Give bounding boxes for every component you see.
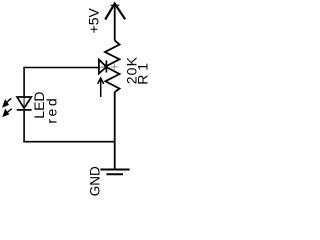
resistor R1 (105, 40, 120, 92)
junction marker + (111, 63, 118, 70)
diode (pot wiper) (99, 60, 107, 74)
wiper arrow (98, 78, 104, 97)
wire right vertical (114, 92, 116, 170)
wire top horizontal (24, 67, 99, 69)
wire bottom horizontal (23, 141, 114, 143)
LED emission arrows (3, 98, 12, 116)
svg-text:R1: R1 (135, 59, 151, 85)
+5V supply arrow (105, 4, 125, 41)
ground (100, 170, 129, 175)
LED (17, 97, 32, 110)
wire through diode (99, 66, 107, 68)
svg-text:+5V: +5V (86, 7, 102, 33)
wire left vertical upper (23, 67, 25, 98)
svg-text:red: red (44, 96, 60, 124)
wire through LED (23, 97, 25, 108)
svg-text:GND: GND (87, 166, 102, 196)
wire left vertical lower (23, 111, 25, 143)
